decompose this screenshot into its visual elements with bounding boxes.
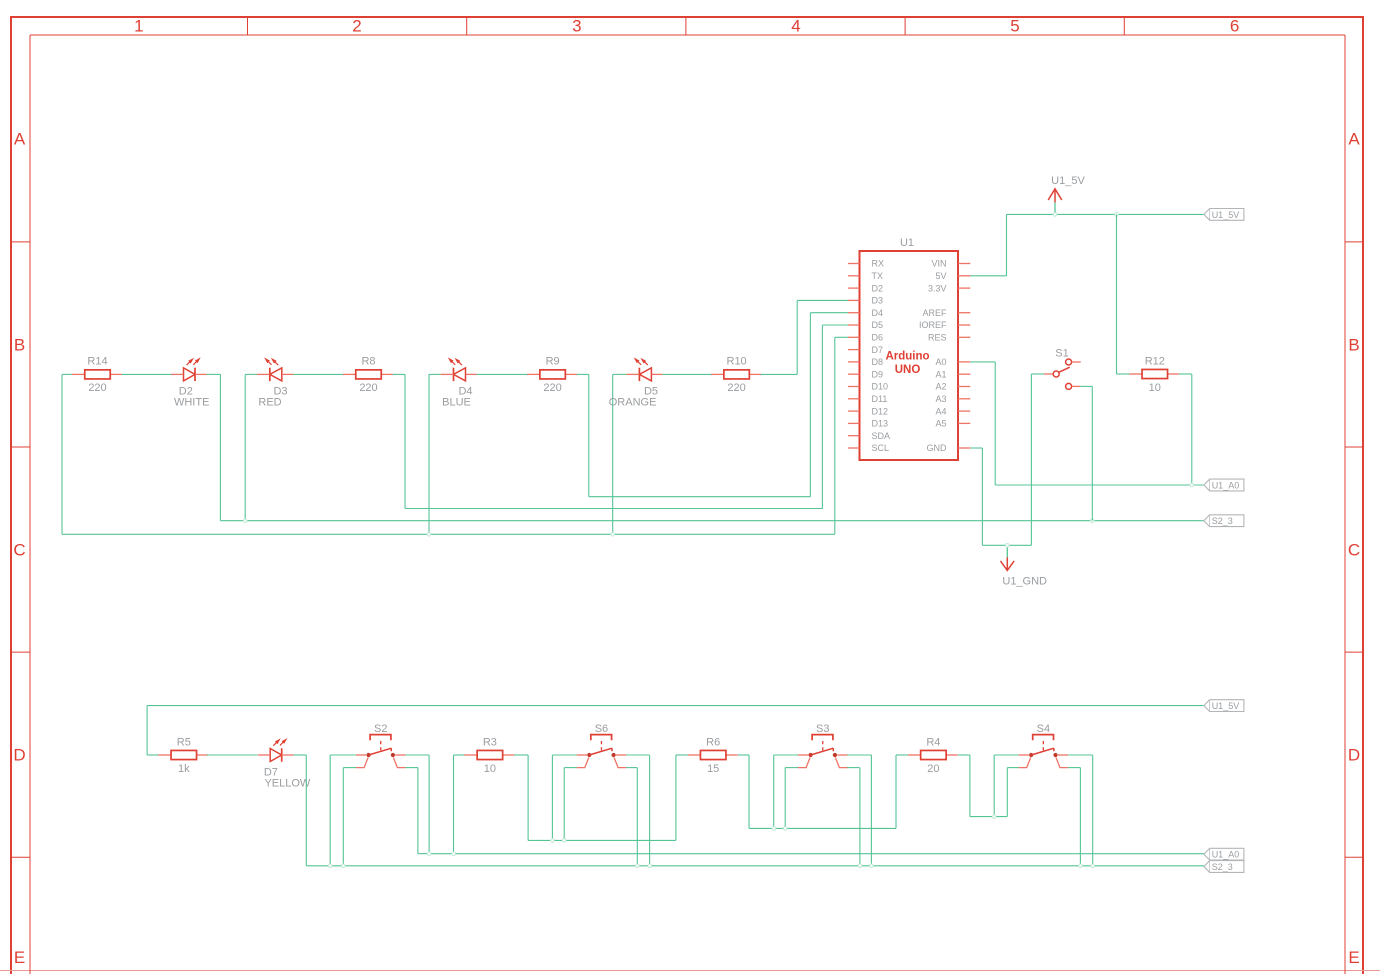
svg-text:D2: D2 xyxy=(872,283,884,293)
svg-text:S3: S3 xyxy=(816,723,829,735)
svg-text:R14: R14 xyxy=(87,356,107,368)
svg-text:ORANGE: ORANGE xyxy=(609,397,657,409)
svg-text:1k: 1k xyxy=(178,763,190,775)
svg-text:A2: A2 xyxy=(935,382,946,392)
svg-text:B: B xyxy=(14,336,25,355)
svg-text:U1_A0: U1_A0 xyxy=(1212,850,1240,860)
svg-text:U1_5V: U1_5V xyxy=(1212,210,1240,220)
svg-text:A0: A0 xyxy=(935,357,946,367)
svg-text:D2: D2 xyxy=(179,385,193,397)
svg-text:R6: R6 xyxy=(706,736,720,748)
svg-text:R3: R3 xyxy=(483,736,497,748)
svg-text:S6: S6 xyxy=(595,723,608,735)
svg-text:1: 1 xyxy=(134,17,143,36)
svg-text:R12: R12 xyxy=(1145,356,1165,368)
svg-text:R5: R5 xyxy=(177,736,191,748)
svg-text:D9: D9 xyxy=(872,369,884,379)
svg-text:SCL: SCL xyxy=(872,443,890,453)
svg-text:D7: D7 xyxy=(872,345,884,355)
svg-text:WHITE: WHITE xyxy=(174,397,209,409)
svg-text:2: 2 xyxy=(352,17,361,36)
svg-text:D6: D6 xyxy=(872,333,884,343)
svg-text:6: 6 xyxy=(1230,17,1239,36)
svg-text:R9: R9 xyxy=(546,356,560,368)
svg-text:3: 3 xyxy=(572,17,581,36)
svg-text:E: E xyxy=(14,948,25,967)
svg-text:UNO: UNO xyxy=(895,364,921,376)
svg-text:D: D xyxy=(13,746,25,765)
svg-text:D4: D4 xyxy=(458,385,472,397)
svg-text:B: B xyxy=(1348,336,1359,355)
svg-text:S2_3: S2_3 xyxy=(1212,516,1233,526)
svg-text:220: 220 xyxy=(359,382,377,394)
svg-text:D8: D8 xyxy=(872,357,884,367)
svg-text:R10: R10 xyxy=(727,356,747,368)
svg-text:S2: S2 xyxy=(374,723,387,735)
svg-text:BLUE: BLUE xyxy=(442,397,471,409)
svg-text:RX: RX xyxy=(872,259,885,269)
svg-text:D7: D7 xyxy=(264,766,278,778)
svg-text:GND: GND xyxy=(927,443,948,453)
svg-text:D: D xyxy=(1348,746,1360,765)
svg-text:YELLOW: YELLOW xyxy=(264,778,310,790)
svg-text:D12: D12 xyxy=(872,406,889,416)
svg-text:IOREF: IOREF xyxy=(919,320,947,330)
svg-text:A: A xyxy=(1348,129,1360,148)
svg-text:C: C xyxy=(13,541,25,560)
svg-text:A1: A1 xyxy=(935,369,946,379)
svg-text:D11: D11 xyxy=(872,394,888,404)
svg-text:TX: TX xyxy=(872,271,884,281)
svg-text:A4: A4 xyxy=(935,406,946,416)
svg-text:D13: D13 xyxy=(872,419,889,429)
svg-text:U1_5V: U1_5V xyxy=(1051,175,1085,187)
svg-text:10: 10 xyxy=(1149,382,1161,394)
svg-text:5: 5 xyxy=(1010,17,1019,36)
svg-text:15: 15 xyxy=(707,763,719,775)
svg-text:220: 220 xyxy=(727,382,745,394)
svg-text:D3: D3 xyxy=(273,385,287,397)
svg-text:U1: U1 xyxy=(900,237,914,249)
svg-text:5V: 5V xyxy=(935,271,946,281)
svg-text:VIN: VIN xyxy=(931,259,946,269)
svg-text:D3: D3 xyxy=(872,296,884,306)
svg-text:AREF: AREF xyxy=(922,308,947,318)
svg-text:4: 4 xyxy=(791,17,800,36)
svg-text:U1_GND: U1_GND xyxy=(1002,576,1047,588)
svg-text:A5: A5 xyxy=(935,419,946,429)
svg-text:10: 10 xyxy=(484,763,496,775)
svg-text:R4: R4 xyxy=(926,736,940,748)
svg-text:U1_A0: U1_A0 xyxy=(1212,480,1240,490)
svg-text:RES: RES xyxy=(928,333,947,343)
svg-text:A: A xyxy=(14,129,26,148)
svg-text:A3: A3 xyxy=(935,394,946,404)
svg-text:220: 220 xyxy=(543,382,561,394)
svg-text:3.3V: 3.3V xyxy=(928,283,947,293)
svg-text:20: 20 xyxy=(927,763,939,775)
svg-text:D5: D5 xyxy=(872,320,884,330)
svg-text:S4: S4 xyxy=(1037,723,1050,735)
svg-text:S1: S1 xyxy=(1055,348,1068,360)
svg-text:R8: R8 xyxy=(361,356,375,368)
svg-text:D5: D5 xyxy=(644,385,658,397)
svg-text:D4: D4 xyxy=(872,308,884,318)
svg-text:E: E xyxy=(1348,948,1359,967)
svg-text:220: 220 xyxy=(88,382,106,394)
svg-text:S2_3: S2_3 xyxy=(1212,862,1233,872)
svg-text:SDA: SDA xyxy=(872,431,891,441)
svg-text:C: C xyxy=(1348,541,1360,560)
svg-text:RED: RED xyxy=(258,397,281,409)
svg-text:U1_5V: U1_5V xyxy=(1212,701,1240,711)
svg-text:D10: D10 xyxy=(872,382,889,392)
svg-text:Arduino: Arduino xyxy=(885,351,929,363)
